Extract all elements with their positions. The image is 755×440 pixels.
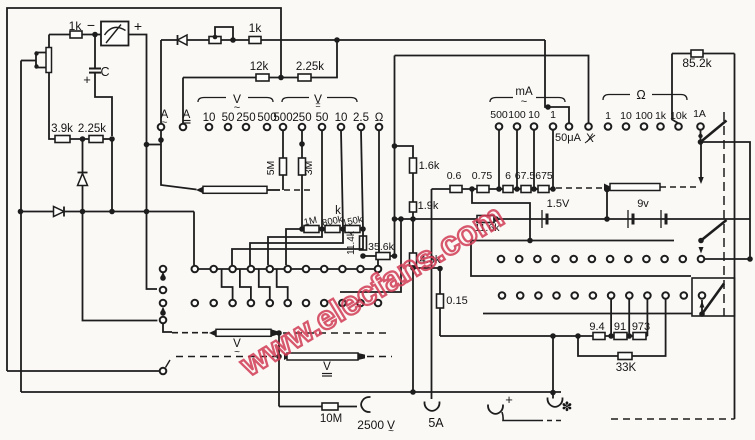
contact row1-left #6: [284, 266, 291, 273]
resistor R-11.6k (in bus): [477, 216, 494, 223]
resistor R-2.25k (divider): [89, 136, 103, 143]
wire: 33k branch: [578, 299, 666, 356]
label 9.4: [589, 321, 604, 333]
label X: [585, 133, 595, 145]
wire: cap branch down: [111, 139, 113, 212]
node: multiplier junction a: [299, 226, 305, 232]
capacitor C1: [89, 35, 112, 137]
contact 10 ohm-range: [623, 123, 630, 130]
wire: outer frame top and left: [7, 8, 281, 371]
wire: divider right to cap branch: [103, 138, 112, 140]
contact row2-left #5: [267, 300, 274, 307]
diode D2 (vertical): [78, 139, 88, 212]
label 10 mA: [528, 109, 540, 121]
resistor R-3.9k: [55, 136, 70, 143]
contact row2-right #11: [681, 292, 688, 299]
contact row2-right #7: [608, 292, 615, 299]
node: 1.6k feed junction: [392, 143, 398, 149]
wire: 50V= drop: [321, 131, 323, 230]
svg-text:675: 675: [535, 170, 553, 182]
svg-text:−: −: [87, 17, 95, 33]
label V~ (bracket): [233, 92, 241, 114]
node: vertical diode junction: [80, 209, 86, 215]
wire: 12k line y=77.5: [183, 40, 337, 78]
contact row1-left #3: [229, 266, 236, 273]
resistor R-1.9k: [410, 202, 417, 212]
node: row2 wiper hub: [699, 311, 705, 317]
slide bar B (V~): [209, 329, 277, 336]
svg-text:250: 250: [292, 112, 311, 124]
wire: 1.6k to 1.9k: [412, 173, 414, 202]
label star: [562, 399, 573, 414]
contact pole-2 (left column): [160, 287, 167, 294]
svg-text:10: 10: [528, 109, 540, 121]
label 3M: [303, 161, 315, 176]
wiper arm (row1-right): [701, 220, 727, 241]
label minus: [87, 17, 95, 33]
wire: meter plus to right vertical: [129, 35, 147, 145]
label 10 ohm-range: [620, 110, 632, 122]
contact 500 mA: [496, 123, 503, 130]
contact row1-left #1: [192, 266, 199, 273]
contact row2-left #10: [357, 300, 364, 307]
node: A~ tap junction: [144, 142, 150, 148]
wire: 5A riser: [431, 189, 433, 399]
svg-text:11.4k: 11.4k: [346, 230, 357, 255]
label ohm (bracket): [636, 88, 645, 102]
jack star: [547, 393, 562, 407]
wire: 0.75 junction to box top: [472, 189, 530, 241]
contact 250 at x=302: [299, 124, 306, 131]
svg-text:1: 1: [605, 110, 611, 122]
wire: pole-5 tick to V= track: [166, 360, 171, 368]
wire: pole-4 to V~ track: [163, 324, 172, 332]
label 1 mA: [550, 109, 556, 121]
label 1k (trimmer series): [249, 21, 263, 35]
contact row1-right #7: [607, 256, 614, 263]
resistor R-4.3k: [410, 253, 417, 266]
node: feedback junction: [334, 37, 340, 43]
contact row2-left #11: [375, 300, 382, 307]
label 9v: [637, 198, 649, 210]
bracket V= range: [282, 98, 357, 103]
node: star jack bottom junction: [550, 390, 556, 396]
wire: ohm wiper to 9V track: [698, 142, 704, 184]
resistor R-3M: [299, 158, 306, 175]
wire: 1.6k feed: [395, 146, 414, 158]
wire: bottom right dashed: [611, 418, 735, 420]
wire: drop to row1 last contact: [377, 259, 379, 265]
contact 1k ohm-range: [657, 123, 664, 130]
label V= (bracket): [314, 92, 322, 110]
label V= (bar C): [322, 361, 332, 376]
bracket mA range: [490, 98, 565, 103]
label 11.6k: [475, 216, 501, 234]
wire: star jack drop: [552, 336, 554, 393]
wire: 35.6k to long vertical: [390, 255, 395, 257]
contact row2-left #9: [339, 300, 346, 307]
label 50 (range contact): [316, 112, 329, 124]
node: adj junction 1: [608, 333, 614, 339]
svg-text:k: k: [335, 205, 341, 217]
trimmer RP1: [209, 27, 233, 44]
contact 1A ohm-range: [697, 123, 704, 130]
label 0.15: [446, 295, 467, 307]
contact row2-right #2: [517, 292, 524, 299]
wiper arm (row2-right): [702, 284, 724, 315]
node: bar C junction: [276, 354, 282, 360]
label A~ jack: [161, 109, 169, 129]
wire: 85.2k loop: [672, 54, 735, 420]
contact 10 at x=209: [206, 124, 213, 131]
svg-text:1.9k: 1.9k: [418, 200, 439, 212]
label 10 (range contact): [335, 112, 348, 124]
svg-text:1k: 1k: [249, 21, 263, 35]
label 675: [535, 170, 553, 182]
wire: 9V bar dashes right: [660, 186, 698, 188]
svg-text:50: 50: [316, 112, 329, 124]
resistor R-675: [538, 186, 549, 193]
wire: 91 drop: [628, 299, 630, 336]
wire: row1-right box left+bottom: [471, 241, 691, 277]
contact row2-right #6: [590, 292, 597, 299]
contact 10 mA: [531, 123, 538, 130]
wire: 9.4 drop: [610, 299, 612, 336]
contact row2-right #1: [499, 292, 506, 299]
arrow: row1 wiper to pole: [699, 247, 704, 254]
node: star jack junction top: [550, 333, 556, 339]
resistor R-35.6k: [376, 253, 390, 260]
diode D1 (horizontal): [54, 207, 65, 217]
wire: bus branch down at 401: [340, 216, 404, 292]
label plus (jack): [505, 392, 513, 407]
contact 1 ohm-range: [605, 123, 612, 130]
resistor R-0.15: [437, 294, 444, 308]
wire: bar B dashes right: [283, 332, 390, 334]
wire: ohm-adjust line: [440, 335, 647, 337]
svg-text:~: ~: [521, 96, 527, 108]
label 250 (range contact): [292, 112, 311, 124]
contact row2-right #8: [626, 292, 633, 299]
wire: rectifier line y=40: [161, 39, 545, 41]
contact 2.5 at x=361: [358, 124, 365, 131]
wire: 9V bar junction drop: [604, 191, 610, 222]
label 4.3k: [420, 254, 441, 266]
bracket V~ range: [198, 98, 273, 103]
arrow: row2 wiper to pole: [700, 301, 705, 308]
wire: 1k line corner down to 50uA feed: [545, 40, 569, 123]
wire: mA 1 drop: [552, 131, 554, 190]
svg-text:500: 500: [273, 112, 292, 124]
contact row1-right #8: [625, 256, 632, 263]
label C: [100, 65, 109, 79]
label 500 (range contact): [257, 112, 276, 124]
node: 4.3k branch junction: [410, 265, 416, 271]
svg-text:10: 10: [335, 112, 348, 124]
wire: 10V= drop: [341, 131, 343, 230]
contact A at x=183: [180, 124, 187, 131]
wire: 3M down to multiplier row: [301, 175, 303, 229]
box around row2 wiper: [692, 278, 735, 316]
label 0.6: [447, 170, 462, 182]
wire: bus through left row1: [195, 268, 378, 270]
label plus (capacitor): [83, 72, 91, 87]
label 100 mA: [508, 109, 526, 121]
resistor R-800k: [325, 226, 340, 233]
wire: 4.3k to bottom rail: [412, 266, 414, 392]
svg-text:1k: 1k: [655, 110, 667, 122]
label k (group): [335, 205, 341, 217]
contact row1-left #9: [339, 266, 346, 273]
svg-text:2.25k: 2.25k: [78, 123, 106, 135]
svg-text:+: +: [505, 392, 513, 407]
diode D3 (points left): [178, 35, 188, 45]
svg-text:Ω: Ω: [375, 112, 384, 124]
label &#937; (range contact): [375, 112, 384, 124]
label 10M: [320, 413, 342, 425]
wire: row2-right bottom line: [483, 313, 692, 315]
node: cap branch junction: [109, 136, 115, 142]
label 12k: [250, 61, 269, 73]
battery cell 1.5V: [542, 210, 547, 228]
wire: bar B to bar C to 10M line: [278, 333, 280, 407]
svg-text:0.6: 0.6: [447, 170, 462, 182]
node: chain junction 4: [531, 186, 537, 192]
svg-text:V: V: [323, 361, 331, 373]
contact row1-left #4: [248, 266, 255, 273]
contact 100 mA: [514, 123, 521, 130]
svg-text:C: C: [100, 65, 109, 79]
node: left rail diode junction: [18, 209, 24, 215]
wire: left rail vertical: [20, 61, 22, 393]
wire: z-link bus to row2: [240, 269, 251, 300]
wire: 1.9k down: [412, 212, 414, 253]
node: bar B junction: [276, 330, 282, 336]
svg-text:3M: 3M: [303, 161, 315, 176]
wire: z-link bus to row2: [277, 269, 288, 300]
label 91: [614, 321, 626, 333]
wire: divider link: [70, 138, 89, 140]
svg-text:100: 100: [635, 110, 653, 122]
wire: line y=55 to X contact: [395, 56, 589, 123]
contact row1-right #9: [643, 256, 650, 263]
wire: 0.15 down to ohm-adjust line: [439, 308, 441, 336]
wire: frame to pole-5: [7, 370, 159, 372]
contact 500 at x=283: [280, 124, 287, 131]
contact row1-left #8: [321, 266, 328, 273]
label 10 (range contact): [203, 112, 216, 124]
resistor R-67.5: [521, 186, 531, 193]
contact X (common): [585, 123, 592, 130]
label 10k ohm-range: [670, 110, 688, 122]
switch axis dash-dot line: [723, 112, 725, 316]
resistor R-12k: [256, 74, 269, 81]
wire: 973 drop: [646, 299, 648, 336]
label 250 (range contact): [236, 112, 255, 124]
jack 2500V: [361, 397, 370, 412]
svg-text:3.9k: 3.9k: [51, 123, 73, 135]
svg-text:85.2k: 85.2k: [682, 56, 712, 70]
label 1A ohm-range: [693, 108, 706, 120]
node: X line battery-bus junction: [392, 216, 398, 222]
label 100 ohm-range: [635, 110, 653, 122]
svg-text:2.25k: 2.25k: [296, 61, 324, 73]
node: chain junction 3: [514, 186, 520, 192]
node: multiplier junction b: [319, 226, 325, 232]
svg-text:500: 500: [490, 109, 508, 121]
slide bar 9V: [604, 184, 660, 191]
label 5M: [265, 161, 277, 176]
wire: bar C dashes right: [367, 356, 392, 358]
contact row2-right #9: [644, 292, 651, 299]
node: chain junction 5: [550, 186, 556, 192]
resistor R-33k: [618, 353, 632, 360]
svg-text:=: =: [315, 100, 320, 110]
contact 50 at x=228: [225, 124, 232, 131]
contact row1-right #12: [698, 256, 705, 263]
label 1 ohm-range: [605, 110, 611, 122]
resistor R-11.4k: [360, 236, 367, 250]
contact row1-right #3: [534, 256, 541, 263]
wire: 250V= drop to 3M: [301, 131, 303, 159]
wire: A~ drop: [160, 40, 162, 123]
node: divider junction: [80, 136, 86, 142]
contact row2-left #6: [284, 300, 291, 307]
wire: speaker drive from left rail: [21, 60, 36, 62]
node: cap branch junction on bus: [109, 209, 115, 215]
wire: bar C dashes left: [176, 356, 276, 358]
bracket ohm range: [603, 95, 687, 101]
resistor R-150k: [345, 226, 360, 233]
svg-text:35.6k: 35.6k: [368, 241, 394, 253]
label 3.9k: [51, 123, 73, 135]
node: ohm wiper hub: [698, 139, 704, 145]
contact row1-left #10: [357, 266, 364, 273]
node: chain junction 2: [496, 186, 502, 192]
label 973: [632, 321, 650, 333]
svg-text:91: 91: [614, 321, 626, 333]
label 0.75: [472, 170, 493, 182]
contact pole-3 (left column): [160, 300, 167, 307]
svg-text:250: 250: [236, 112, 255, 124]
node: 3M top junction: [299, 141, 305, 147]
node: row1 wiper hub: [698, 238, 704, 244]
label 35.6k: [368, 241, 394, 253]
contact 500 at x=267: [264, 124, 271, 131]
label 67.5: [515, 170, 536, 182]
resistor R-10M: [322, 403, 338, 410]
wire: row1 pole to right rail: [705, 256, 753, 262]
watermark www.elecfans.com: [233, 197, 510, 384]
jack 5A: [424, 402, 439, 411]
transducer LS1 (piezo/speaker): [34, 48, 51, 73]
wire: 11.4k to 35.6k: [363, 255, 376, 257]
node: meter-right vertical junction: [144, 209, 150, 215]
node+arrow wiper pole-1: [160, 272, 166, 281]
label 33K: [616, 362, 637, 374]
wire: meter series line: [49, 34, 101, 36]
wire: battery bus: [395, 218, 751, 220]
wire: speaker bottom to divider: [49, 73, 55, 139]
wire: diode bus to row1 first contact: [193, 212, 195, 266]
node: adj junction 2: [626, 333, 632, 339]
svg-text:5A: 5A: [428, 416, 444, 430]
svg-text:5M: 5M: [265, 161, 277, 176]
node: 35.6k right junction: [392, 253, 398, 259]
node: 9V bar left junction: [604, 187, 610, 193]
svg-text:50: 50: [222, 112, 235, 124]
node: 11.4k bottom junction: [360, 253, 366, 259]
wire: bus y=320 from divider: [83, 212, 158, 321]
contact row2-left #7: [303, 300, 310, 307]
contact 50 at x=322: [319, 124, 326, 131]
svg-text:10: 10: [203, 112, 216, 124]
contact A at x=161: [158, 124, 165, 131]
node: box top junction: [527, 238, 533, 244]
label 50 (range contact): [222, 112, 235, 124]
wire: z-link bus to row2: [222, 269, 233, 300]
svg-text:6: 6: [505, 170, 511, 182]
contact row1-right #5: [570, 256, 577, 263]
contact row2-right #4: [553, 292, 560, 299]
svg-text:10: 10: [620, 110, 632, 122]
label 11.4k: [346, 230, 357, 255]
label 1M: [303, 215, 318, 229]
svg-text:+: +: [83, 72, 91, 87]
svg-text:2500: 2500: [357, 418, 384, 432]
resistor R-9.4: [593, 333, 605, 340]
wire: ohm contact drop: [378, 131, 380, 253]
label 1k ohm-range: [655, 110, 667, 122]
wire: X line long vertical: [394, 56, 396, 257]
svg-text:Ω: Ω: [636, 88, 645, 102]
label A= jack: [183, 109, 191, 123]
wire: staircase s1: [286, 229, 302, 265]
svg-text:1A: 1A: [693, 108, 706, 120]
svg-text:10M: 10M: [320, 413, 342, 425]
node: 33k junction: [575, 333, 581, 339]
contact row2-right #12: [699, 292, 706, 299]
node: meter minus junction: [92, 32, 98, 38]
contact row1-left #5: [267, 266, 274, 273]
contact 1 mA: [550, 123, 557, 130]
resistor R-1k (meter series): [70, 31, 82, 38]
node: bottom rail junction at 413: [410, 389, 416, 395]
svg-text:12k: 12k: [250, 61, 269, 73]
contact row2-left #4: [248, 300, 255, 307]
label mA (bracket): [515, 86, 533, 108]
resistor R-85.2k: [691, 50, 703, 57]
label 50uA: [555, 132, 582, 144]
label 6: [505, 170, 511, 182]
label 85.2k: [682, 56, 712, 70]
contact row2-right #3: [535, 292, 542, 299]
jack plus: [488, 405, 564, 421]
label 1k: [69, 19, 83, 33]
svg-text:1: 1: [550, 109, 556, 121]
resistor R-5M: [280, 158, 287, 175]
label V~ (bar B): [233, 338, 241, 358]
wire: loop left to 10k contact: [672, 54, 678, 124]
resistor R-6: [503, 186, 513, 193]
wire: staircase s3: [250, 229, 343, 265]
node+arrow wiper pole-3: [160, 307, 166, 316]
wire: meter-right vertical lower: [147, 145, 158, 290]
resistor R-1M: [304, 226, 319, 233]
contact 10 at x=341: [338, 124, 345, 131]
label 500 mA: [490, 109, 508, 121]
wire: chain dashes to 9V bar: [556, 187, 604, 189]
